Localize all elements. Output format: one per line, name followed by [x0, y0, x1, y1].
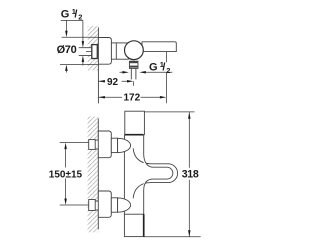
- svg-text:318: 318: [182, 169, 199, 181]
- svg-text:2: 2: [166, 66, 170, 75]
- svg-text:G: G: [149, 62, 158, 74]
- svg-text:150±15: 150±15: [49, 169, 83, 180]
- svg-text:172: 172: [124, 93, 141, 104]
- svg-text:G: G: [61, 9, 70, 21]
- svg-text:92: 92: [107, 77, 119, 88]
- svg-text:/: /: [74, 9, 77, 21]
- svg-text:/: /: [162, 62, 165, 74]
- svg-text:Ø70: Ø70: [57, 44, 77, 56]
